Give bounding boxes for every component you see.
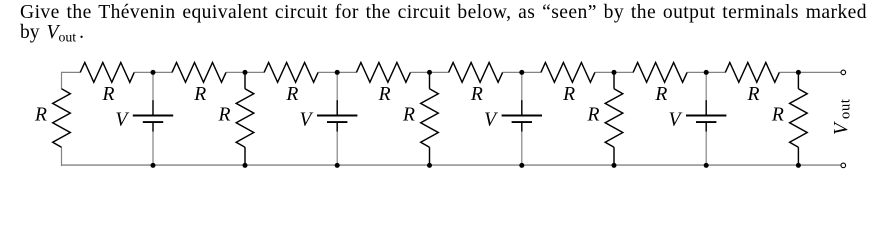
svg-text:R: R [470,84,483,105]
node junction dot bottom 8 [796,163,801,168]
svg-text:R: R [587,105,600,126]
problem statement text [20,0,867,1]
wire top rail segment 8a [706,71,725,73]
svg-text:R: R [654,84,667,105]
svg-text:R: R [747,84,760,105]
node junction dot bottom 2 [243,163,248,168]
resistor R11 (vertical at node) [421,72,439,165]
svg-text:R: R [378,84,391,105]
node junction dot bottom 6 [612,163,617,168]
svg-text:R: R [102,84,115,105]
wire top rail segment 5b [503,71,522,73]
wire top rail segment 2a [153,71,172,73]
wire top rail segment 4b [410,71,429,73]
node junction dot top 5 [519,70,524,75]
wire top rail segment 5a [430,71,449,73]
svg-text:out: out [837,98,853,119]
node junction dot top 8 [796,70,801,75]
resistor R7 (horizontal, top rail) [541,63,595,83]
wire bottom rail [62,164,842,166]
node junction dot top 1 [151,70,156,75]
svg-text:R: R [218,105,231,126]
wire top rail segment 8b [779,71,798,73]
resistor R9 (horizontal, top rail) [725,63,779,83]
resistor R5 (horizontal, top rail) [356,63,410,83]
svg-text:V: V [484,110,498,131]
svg-text:R: R [562,84,575,105]
wire top rail segment 6b [595,71,614,73]
battery V2 (voltage source) [317,72,357,165]
wire top rail segment 7b [687,71,706,73]
resistor R12 (vertical at node) [605,72,623,165]
wire top rail segment 6a [522,71,541,73]
resistor R8 (horizontal, top rail) [633,63,687,83]
svg-text:R: R [402,105,415,126]
resistor R6 (horizontal, top rail) [449,63,503,83]
wire top rail segment 2b [226,71,245,73]
svg-text:R: R [193,84,206,105]
wire top rail segment 1b [134,71,153,73]
node junction dot top 4 [427,70,432,75]
circuit schematic [0,0,892,187]
resistor R4 (horizontal, top rail) [264,63,318,83]
node junction dot top 7 [704,70,709,75]
resistor R13 (vertical at node) [790,72,808,165]
svg-text:V: V [669,110,683,131]
resistor R2 (horizontal, top rail) [80,63,134,83]
svg-text:V: V [831,121,852,135]
terminal top (open circle) [841,70,846,75]
svg-text:R: R [771,105,784,126]
node junction dot bottom 3 [335,163,340,168]
battery V1 (voltage source) [133,72,173,165]
resistor R1 (left vertical) [53,89,71,147]
wire top rail to output terminal [798,71,841,73]
battery V3 (voltage source) [502,72,542,165]
node junction dot bottom 5 [519,163,524,168]
node junction dot bottom 7 [704,163,709,168]
wire left edge top stub [61,72,63,89]
svg-text:R: R [34,105,47,126]
svg-text:V: V [300,110,314,131]
wire top rail segment 7a [614,71,633,73]
node junction dot top 6 [612,70,617,75]
svg-text:V: V [115,110,129,131]
svg-text:R: R [285,84,298,105]
wire top rail segment 4a [337,71,356,73]
node junction dot top 2 [243,70,248,75]
resistor R3 (horizontal, top rail) [172,63,226,83]
wire top rail segment 3b [318,71,337,73]
node junction dot bottom 4 [427,163,432,168]
wire top rail segment 3a [245,71,264,73]
node junction dot bottom 1 [151,163,156,168]
terminal bottom (open circle) [841,163,846,168]
wire top rail segment 1a [62,71,81,73]
resistor R10 (vertical at node) [236,72,254,165]
node junction dot top 3 [335,70,340,75]
wire left edge bottom stub [61,147,63,166]
battery V4 (voltage source) [686,72,726,165]
